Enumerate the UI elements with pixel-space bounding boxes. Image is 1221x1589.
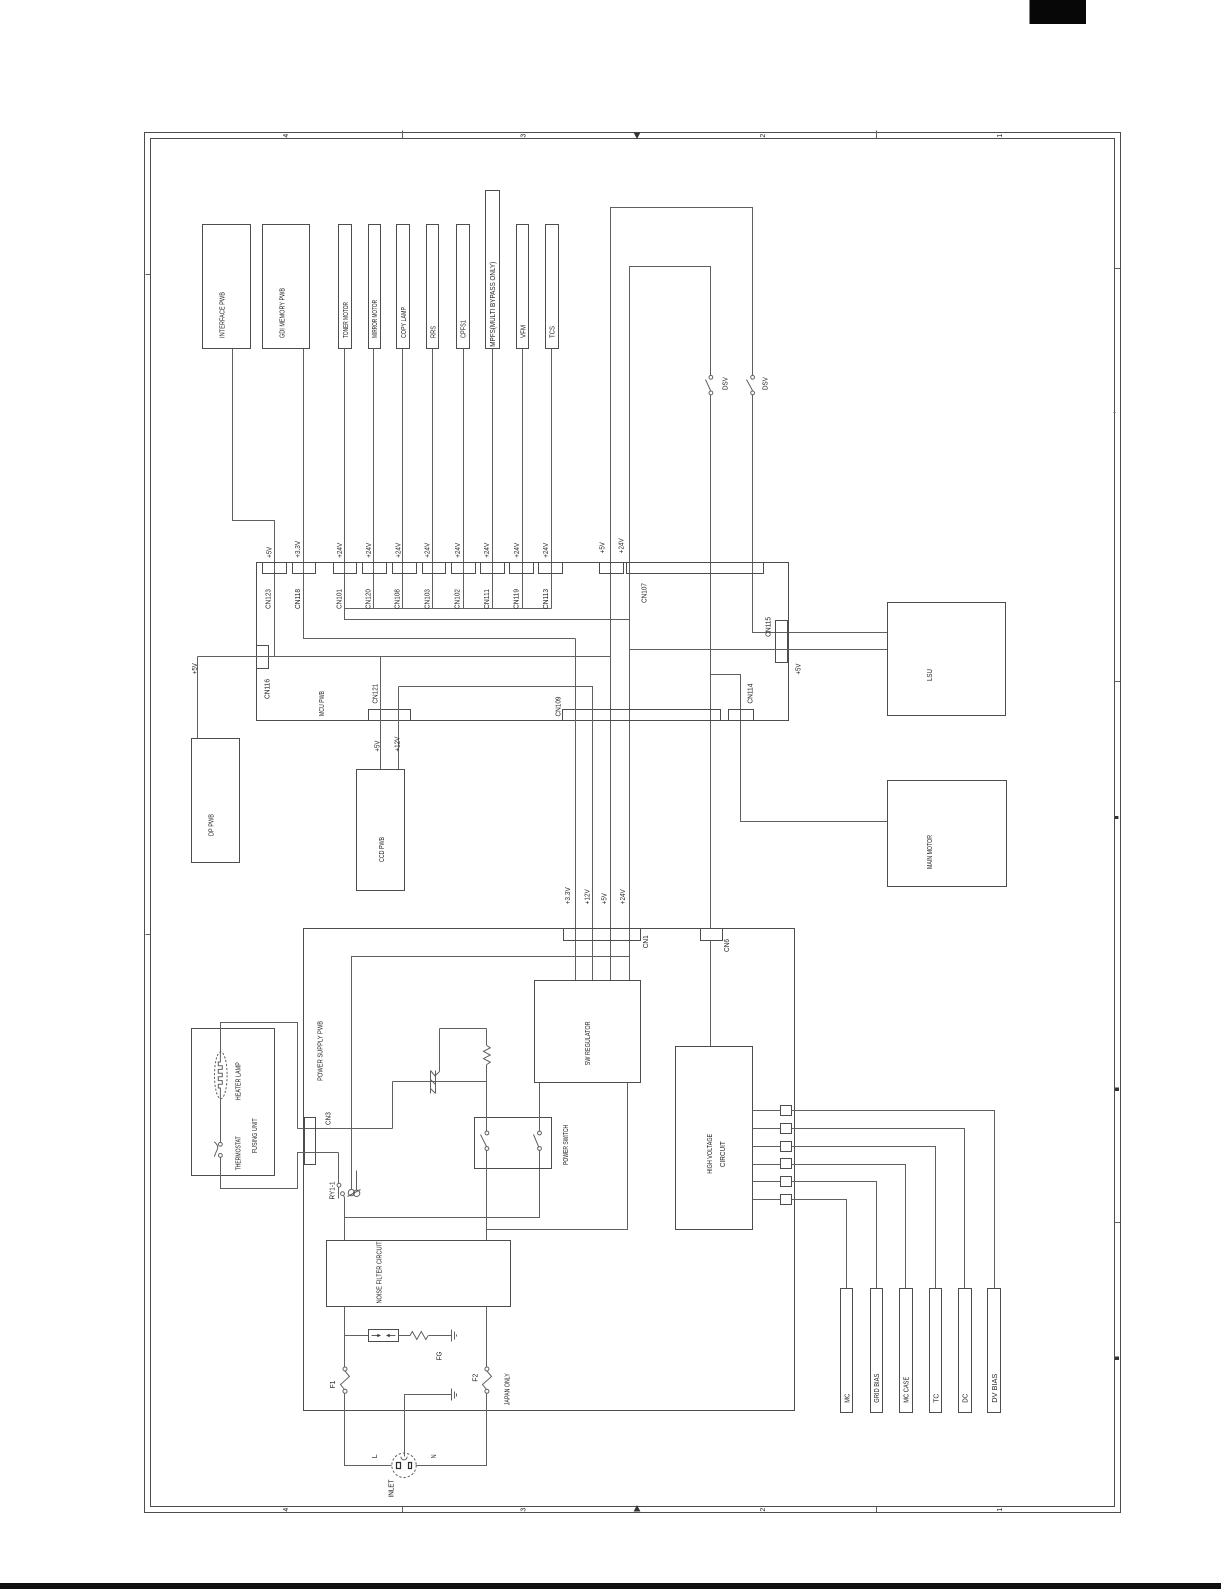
block CPFS1: [457, 225, 470, 349]
svg-text:POWER SUPPLY PWB: POWER SUPPLY PWB: [317, 1021, 324, 1081]
svg-text:DP PWB: DP PWB: [209, 814, 216, 836]
wire heater lamp to CN3: [221, 1023, 298, 1129]
switch DSV2: [751, 375, 755, 379]
block COPY LAMP: [397, 225, 410, 349]
wire +5V riser to DSV2: [611, 208, 753, 981]
svg-text:TCS: TCS: [550, 326, 557, 338]
svg-text:SW REGULATOR: SW REGULATOR: [585, 1021, 592, 1065]
wire MPFS to CN111: [492, 349, 494, 609]
block GDI MEMORY PWB: [263, 225, 310, 349]
connector CN111: [481, 563, 505, 574]
svg-text:2: 2: [760, 1508, 767, 1512]
svg-text:4: 4: [283, 134, 290, 138]
svg-text:CN109: CN109: [556, 696, 563, 716]
wire DSV2 to LSU: [753, 395, 888, 633]
svg-text:+24V: +24V: [618, 538, 625, 553]
block MCU PWB: [257, 563, 789, 721]
svg-text:CIRCUIT: CIRCUIT: [720, 1141, 727, 1168]
surge arrester: [369, 1330, 399, 1342]
wire resistor to frame ground: [429, 1335, 452, 1337]
svg-text:CN120: CN120: [366, 589, 373, 609]
wire inlet ground: [405, 1395, 452, 1457]
svg-text:+24V: +24V: [337, 543, 344, 558]
svg-text:+24V: +24V: [366, 543, 373, 558]
wire snubber left: [439, 1029, 441, 1072]
svg-text:N: N: [431, 1454, 438, 1458]
svg-text:F2: F2: [473, 1374, 480, 1382]
svg-text:JAPAN ONLY: JAPAN ONLY: [505, 1373, 512, 1405]
wire snubber top: [440, 1028, 487, 1030]
svg-text:+5V: +5V: [795, 663, 802, 674]
switch contact B: [538, 1131, 542, 1135]
centering arrow top: [634, 133, 641, 140]
wire COPY LAMP to CN108: [402, 349, 404, 609]
wire HV circuit to output 6: [753, 1199, 781, 1201]
connector CN109: [563, 710, 721, 721]
svg-text:CN101: CN101: [336, 589, 343, 609]
svg-text:THERMOSTAT: THERMOSTAT: [235, 1136, 242, 1171]
block INTERFACE PWB: [203, 225, 251, 349]
wire switch A upper: [486, 1082, 488, 1132]
block MIRROR MOTOR: [369, 225, 381, 349]
connector CN3: [305, 1118, 316, 1165]
block MPFS (MULTI BYPASS ONLY): [486, 191, 500, 349]
svg-text:CN108: CN108: [395, 589, 402, 609]
svg-text:FG: FG: [437, 1351, 444, 1360]
wire DSV1 to CN6: [710, 395, 712, 929]
block CCD PWB: [357, 770, 405, 891]
scanner edge band: [0, 1583, 1221, 1589]
block DV BIAS: [988, 1289, 1001, 1413]
wire HV circuit to output 3: [753, 1146, 781, 1148]
svg-text:DV BIAS: DV BIAS: [992, 1373, 999, 1402]
wire lamp to thermostat: [220, 1099, 222, 1143]
wire TONER MOTOR to CN101: [344, 349, 346, 609]
svg-text:+5V: +5V: [374, 740, 381, 751]
zone tick marks bottom: [402, 1507, 404, 1513]
svg-text:CN118: CN118: [295, 589, 302, 609]
svg-text:CN102: CN102: [454, 589, 461, 609]
wire GDI MEMORY PWB to CN118 (+3.3V net): [304, 349, 576, 639]
thermostat THERMOSTAT: [219, 1142, 223, 1146]
connector CN119: [510, 563, 534, 574]
block TONER MOTOR: [339, 225, 352, 349]
wire relay to noise filter: [344, 1198, 346, 1241]
svg-text:+3.3V: +3.3V: [295, 541, 302, 558]
svg-text:F1: F1: [330, 1380, 337, 1388]
wire +5V to LSU via CN115: [630, 649, 888, 651]
wire F2 to inlet N: [417, 1394, 487, 1466]
svg-text:MPFS(MULTI BYPASS ONLY): MPFS(MULTI BYPASS ONLY): [490, 262, 497, 347]
svg-text:1: 1: [997, 1508, 1004, 1512]
ground FG symbol: [451, 1330, 453, 1342]
svg-text:MC CASE: MC CASE: [904, 1376, 911, 1402]
svg-text:TC: TC: [933, 1394, 940, 1403]
svg-text:MCU PWB: MCU PWB: [319, 691, 326, 716]
block RRS: [427, 225, 439, 349]
connector CN123: [263, 563, 287, 574]
relay RY1-1 contact: [338, 1153, 340, 1184]
svg-text:+5V: +5V: [192, 663, 199, 674]
zone tick marks top: [402, 131, 404, 139]
svg-text:CN115: CN115: [765, 617, 772, 637]
svg-text:NOISE FILTER CIRCUIT: NOISE FILTER CIRCUIT: [376, 1241, 383, 1304]
varistor: [430, 1071, 432, 1094]
svg-text:CN103: CN103: [425, 589, 432, 609]
connector CN102: [452, 563, 476, 574]
connector CN107 (section a): [600, 563, 624, 574]
wire CN121 pin +5V to CCD PWB: [380, 657, 382, 770]
block POWER SUPPLY PWB: [304, 929, 795, 1411]
svg-text:DSV: DSV: [763, 377, 770, 390]
svg-text:CN6: CN6: [724, 939, 731, 952]
block POWER SWITCH: [475, 1118, 552, 1169]
block MC: [841, 1289, 853, 1413]
connector CN6: [701, 929, 723, 941]
zone marks left edge: [146, 274, 151, 276]
connector CN113: [539, 563, 563, 574]
svg-text:MIRROR MOTOR: MIRROR MOTOR: [372, 300, 379, 338]
wire F1 to inlet L: [345, 1394, 392, 1466]
svg-text:MC: MC: [845, 1394, 852, 1403]
connector CN114: [729, 710, 754, 721]
wire HV circuit to output 4: [753, 1164, 781, 1166]
svg-text:+24V: +24V: [514, 543, 521, 558]
svg-text:+5V: +5V: [600, 542, 607, 553]
wire output 2 routing: [792, 1129, 965, 1289]
svg-text:+24V: +24V: [455, 543, 462, 558]
wire HV circuit to output 1: [753, 1110, 781, 1112]
wire CPFS1 to CN102: [463, 349, 465, 609]
svg-text:+12V: +12V: [584, 889, 591, 904]
wire +3.3V riser: [575, 639, 577, 981]
svg-text:GDI MEMORY PWB: GDI MEMORY PWB: [280, 288, 287, 338]
block TC: [930, 1289, 942, 1413]
lamp HEATER LAMP: [215, 1052, 228, 1099]
switch contact A: [485, 1131, 489, 1135]
svg-text:HIGH VOLTAGE: HIGH VOLTAGE: [707, 1134, 714, 1174]
switch DSV1: [709, 375, 713, 379]
svg-text:RRS: RRS: [431, 326, 438, 338]
svg-text:POWER SWITCH: POWER SWITCH: [563, 1125, 570, 1165]
wire CN116 to DP PWB: [197, 657, 199, 739]
connector CN1: [564, 929, 641, 941]
inlet INLET: [392, 1453, 416, 1477]
drawing frame outer border: [145, 133, 1121, 1513]
wire HV circuit to output 2: [753, 1128, 781, 1130]
connector CN101: [334, 563, 357, 574]
ground symbol at inlet: [451, 1389, 453, 1401]
svg-text:RY1-1: RY1-1: [330, 1181, 337, 1199]
wire TCS to CN113: [551, 349, 553, 609]
wire output 5 routing: [792, 1182, 877, 1289]
block TCS: [546, 225, 559, 349]
wire HV circuit to output 5: [753, 1181, 781, 1183]
svg-text:INLET: INLET: [389, 1479, 396, 1498]
fuse F1: [343, 1367, 347, 1371]
wire switch A lower to SW REGULATOR: [486, 1151, 488, 1241]
svg-text:TONER MOTOR: TONER MOTOR: [343, 302, 350, 338]
block MC CASE: [900, 1289, 913, 1413]
wire L line below noise filter: [344, 1307, 346, 1367]
connector CN121: [369, 710, 411, 721]
svg-text:+24V: +24V: [395, 543, 402, 558]
block DP PWB: [192, 739, 240, 863]
connector CN103: [423, 563, 446, 574]
svg-text:CN107: CN107: [642, 583, 649, 603]
svg-text:VFM: VFM: [520, 325, 527, 338]
svg-text:L: L: [372, 1454, 379, 1458]
connector HV output 5: [781, 1177, 792, 1187]
svg-text:GRID BIAS: GRID BIAS: [874, 1373, 881, 1402]
svg-text:3: 3: [521, 1508, 528, 1512]
svg-text:DSV: DSV: [722, 377, 729, 390]
svg-text:+24V: +24V: [484, 543, 491, 558]
wire INTERFACE PWB to CN123: [233, 349, 275, 657]
connector HV output 6: [781, 1195, 792, 1205]
svg-text:CN123: CN123: [266, 589, 273, 609]
wire +24V branch to relay coil: [352, 957, 630, 1190]
svg-text:CN3: CN3: [325, 1112, 332, 1125]
svg-text:CPFS1: CPFS1: [461, 320, 468, 338]
resistor in snubber: [486, 1029, 488, 1046]
wire to CN3: [298, 1128, 393, 1130]
wire VFM to CN119: [522, 349, 524, 609]
block VFM: [517, 225, 529, 349]
wire junction to power switch contact B: [345, 1151, 540, 1218]
svg-text:CN114: CN114: [748, 684, 755, 704]
connector CN118: [293, 563, 316, 574]
svg-text:4: 4: [283, 1508, 290, 1512]
wire MIRROR MOTOR to CN120: [373, 349, 375, 609]
wire output 6 routing: [792, 1200, 847, 1289]
svg-text:+5V: +5V: [267, 547, 274, 558]
connector HV output 4: [781, 1159, 792, 1169]
wire RRS to CN103: [432, 349, 434, 609]
svg-text:CN113: CN113: [543, 589, 550, 609]
block SW REGULATOR: [535, 981, 641, 1083]
wire branch to CN114 and MAIN MOTOR: [711, 675, 888, 822]
svg-text:FUSING UNIT: FUSING UNIT: [252, 1118, 259, 1154]
svg-text:+5V: +5V: [601, 893, 608, 904]
block DC: [959, 1289, 972, 1413]
wire N line below noise filter: [486, 1307, 488, 1367]
wire FG row: [345, 1335, 369, 1337]
wire output 3 routing: [792, 1147, 936, 1289]
zone marks right edge: [1115, 268, 1121, 270]
connector HV output 2: [781, 1124, 792, 1134]
connector CN115: [776, 621, 788, 663]
svg-text:CN119: CN119: [514, 589, 521, 609]
block GRID BIAS: [871, 1289, 883, 1413]
svg-text:+3.3V: +3.3V: [565, 887, 572, 904]
wire varistor row: [393, 1081, 487, 1083]
bus +24V upper: [345, 609, 630, 620]
connector CN108: [393, 563, 417, 574]
connector CN120: [363, 563, 387, 574]
wire thermostat return to CN3: [221, 1153, 339, 1189]
svg-text:LSU: LSU: [927, 669, 934, 681]
svg-text:+24V: +24V: [425, 543, 432, 558]
wire switch B to SW REGULATOR: [539, 1083, 541, 1132]
svg-text:CCD PWB: CCD PWB: [379, 837, 386, 862]
wire +5V distribution: [198, 656, 611, 658]
centering arrow bottom: [634, 1505, 641, 1512]
svg-text:CN116: CN116: [265, 679, 272, 699]
svg-text:2: 2: [760, 134, 767, 138]
fuse F2: [485, 1367, 489, 1371]
svg-text:+12V: +12V: [394, 736, 401, 751]
svg-text:INTERFACE PWB: INTERFACE PWB: [220, 292, 227, 338]
wire output 4 routing: [792, 1165, 906, 1289]
connector HV output 3: [781, 1142, 792, 1152]
relay RY1-1 coil: [348, 1189, 354, 1195]
wire CN6 to HIGH VOLTAGE CIRCUIT: [710, 941, 712, 1047]
wire +12V net: [399, 687, 593, 981]
connector HV output 1: [781, 1106, 792, 1116]
svg-text:1: 1: [997, 134, 1004, 138]
svg-text:MAIN MOTOR: MAIN MOTOR: [927, 835, 934, 869]
resistor FG: [410, 1332, 428, 1340]
svg-text:+24V: +24V: [543, 543, 550, 558]
block HIGH VOLTAGE CIRCUIT: [676, 1047, 753, 1230]
svg-text:DC: DC: [963, 1394, 970, 1403]
svg-text:HEATER LAMP: HEATER LAMP: [235, 1062, 242, 1100]
block NOISE FILTER CIRCUIT: [327, 1241, 511, 1307]
svg-text:COPY LAMP: COPY LAMP: [401, 307, 408, 338]
svg-text:+24V: +24V: [620, 889, 627, 904]
block LSU: [888, 603, 1006, 716]
block FUSING UNIT: [192, 1029, 275, 1176]
block MAIN MOTOR: [888, 781, 1007, 887]
wire arrester to resistor: [399, 1335, 411, 1337]
connector CN116: [257, 646, 269, 669]
svg-text:3: 3: [521, 134, 528, 138]
wire +24V riser to DSV1: [630, 267, 711, 981]
svg-text:CN1: CN1: [643, 935, 650, 948]
svg-text:CN111: CN111: [484, 589, 491, 609]
drawing frame inner border: [151, 139, 1115, 1507]
svg-text:CN121: CN121: [373, 684, 380, 704]
wire output 1 routing: [792, 1111, 995, 1289]
wire CN121 pin +12V to CCD PWB: [398, 687, 400, 770]
title block (filled): [1030, 0, 1087, 24]
connector CN107 (section b): [627, 563, 764, 574]
